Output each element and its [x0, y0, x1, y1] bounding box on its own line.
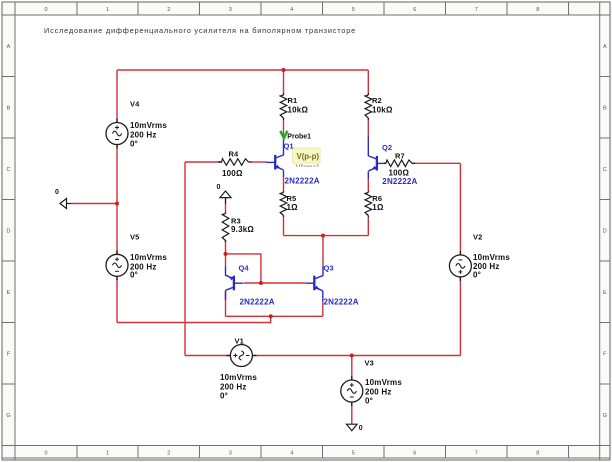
svg-text:200 Hz: 200 Hz	[220, 382, 247, 391]
svg-text:G: G	[6, 413, 10, 419]
svg-text:0: 0	[55, 189, 59, 196]
svg-text:6: 6	[413, 7, 416, 13]
svg-text:1Ω: 1Ω	[372, 203, 384, 212]
svg-text:A: A	[7, 44, 11, 50]
svg-text:D: D	[603, 228, 607, 234]
svg-text:0°: 0°	[130, 271, 138, 280]
svg-text:2N2222A: 2N2222A	[285, 177, 320, 186]
svg-text:0: 0	[359, 425, 363, 432]
svg-text:C: C	[603, 167, 607, 173]
svg-text:8: 8	[536, 7, 539, 13]
svg-text:4: 4	[290, 7, 293, 13]
svg-text:1Ω: 1Ω	[287, 203, 299, 212]
svg-text:R1: R1	[288, 96, 298, 105]
svg-text:1: 1	[106, 451, 109, 457]
svg-text:200 Hz: 200 Hz	[365, 387, 392, 396]
svg-text:V1: V1	[235, 337, 244, 346]
svg-text:100Ω: 100Ω	[222, 169, 243, 178]
svg-text:R4: R4	[229, 149, 240, 158]
svg-text:V(p-p): V(p-p)	[297, 152, 320, 161]
svg-text:0°: 0°	[473, 270, 481, 279]
svg-text:0: 0	[44, 451, 47, 457]
svg-text:0°: 0°	[220, 392, 228, 401]
svg-text:0°: 0°	[130, 140, 138, 149]
svg-text:3: 3	[229, 451, 232, 457]
svg-text:E: E	[7, 290, 11, 296]
svg-text:2: 2	[167, 7, 170, 13]
svg-text:Исследование дифференциального: Исследование дифференциального усилителя…	[44, 26, 356, 35]
svg-text:V3: V3	[365, 359, 374, 368]
svg-text:9.3kΩ: 9.3kΩ	[231, 225, 254, 234]
svg-text:3: 3	[229, 7, 232, 13]
svg-text:R7: R7	[395, 151, 405, 160]
svg-text:8: 8	[536, 451, 539, 457]
svg-text:1: 1	[106, 7, 109, 13]
svg-text:5: 5	[352, 7, 355, 13]
svg-text:V5: V5	[130, 233, 139, 242]
svg-text:B: B	[7, 105, 11, 111]
svg-text:0°: 0°	[365, 397, 373, 406]
svg-text:10mVrms: 10mVrms	[220, 373, 257, 382]
svg-text:10mVrms: 10mVrms	[130, 121, 167, 130]
svg-text:B: B	[603, 105, 607, 111]
svg-text:A: A	[603, 44, 607, 50]
svg-text:6: 6	[413, 451, 416, 457]
svg-text:R2: R2	[372, 96, 382, 105]
svg-text:10mVrms: 10mVrms	[130, 253, 167, 262]
svg-text:10kΩ: 10kΩ	[372, 106, 393, 115]
svg-text:V4: V4	[130, 100, 140, 109]
svg-text:Q1: Q1	[284, 142, 294, 151]
svg-text:Probe1: Probe1	[287, 134, 311, 141]
svg-text:R6: R6	[372, 194, 382, 203]
svg-text:5: 5	[352, 451, 355, 457]
svg-text:0: 0	[44, 7, 47, 13]
svg-text:7: 7	[475, 7, 478, 13]
svg-text:10mVrms: 10mVrms	[473, 253, 510, 262]
svg-text:Q4: Q4	[239, 264, 250, 273]
svg-text:200 Hz: 200 Hz	[130, 130, 157, 139]
svg-text:E: E	[603, 290, 607, 296]
svg-text:2N2222A: 2N2222A	[240, 298, 275, 307]
svg-text:D: D	[7, 228, 11, 234]
svg-text:2N2222A: 2N2222A	[382, 177, 417, 186]
svg-text:10mVrms: 10mVrms	[365, 378, 402, 387]
svg-text:G: G	[603, 413, 607, 419]
svg-text:2: 2	[167, 451, 170, 457]
svg-text:2N2222A: 2N2222A	[324, 298, 359, 307]
svg-text:Q2: Q2	[382, 143, 392, 152]
svg-text:7: 7	[475, 451, 478, 457]
svg-text:R5: R5	[287, 194, 297, 203]
svg-text:Q3: Q3	[324, 264, 334, 273]
svg-text:10kΩ: 10kΩ	[288, 106, 309, 115]
svg-text:4: 4	[290, 451, 293, 457]
svg-text:V2: V2	[473, 232, 482, 241]
svg-text:0: 0	[217, 184, 221, 191]
svg-text:C: C	[7, 167, 11, 173]
